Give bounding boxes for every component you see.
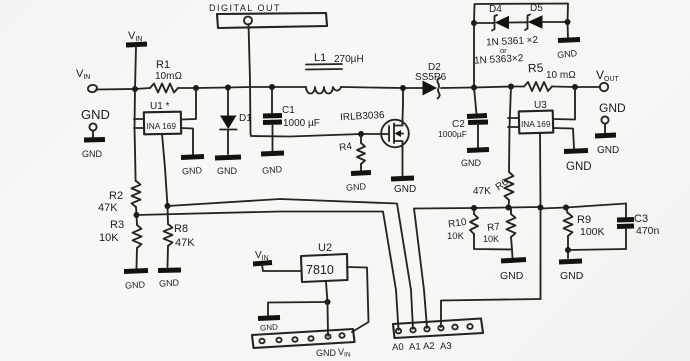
terminal GND right <box>595 101 626 156</box>
zener D4 <box>489 4 527 31</box>
resistor R9 <box>564 208 605 259</box>
wire bus A R8 to A1 <box>168 199 414 329</box>
ground U3 <box>553 128 592 173</box>
resistor R6 <box>473 172 514 207</box>
svg-text:A3: A3 <box>440 341 452 352</box>
svg-text:R10: R10 <box>448 217 468 231</box>
wire U3 left pins column <box>508 87 519 173</box>
ground R4 <box>346 173 371 193</box>
svg-text:GND: GND <box>394 184 416 195</box>
wire main top rail <box>96 87 600 90</box>
wire U3 right pin to rail <box>553 87 575 120</box>
supply VIN U2 <box>253 250 301 271</box>
wire bus C sense divider to A2 <box>414 207 541 209</box>
inductor L1 <box>306 52 364 94</box>
capacitor C2 <box>438 88 488 148</box>
resistor R5 <box>524 60 576 91</box>
connector J1 power <box>252 329 355 359</box>
svg-text:GND: GND <box>81 107 110 122</box>
resistor R1 <box>150 59 182 93</box>
wire source to ground <box>402 147 404 176</box>
ground U2 <box>258 302 328 333</box>
node rail junction right of R1 <box>193 85 199 91</box>
svg-text:270µH: 270µH <box>334 54 364 65</box>
svg-text:A2: A2 <box>423 341 435 352</box>
svg-text:R7: R7 <box>487 221 501 233</box>
wire U3 out to A3 <box>441 299 541 327</box>
wire bus B divider to A0 <box>137 212 399 331</box>
svg-text:47K: 47K <box>175 237 195 249</box>
svg-text:470n: 470n <box>636 225 660 237</box>
terminal GND left <box>81 107 110 159</box>
svg-text:SS5P6: SS5P6 <box>415 72 447 83</box>
ground R7 <box>500 260 526 283</box>
ground Q1 source <box>391 178 416 195</box>
ground clamp <box>557 40 580 61</box>
svg-text:INA 169: INA 169 <box>521 119 551 129</box>
ground C2 <box>461 150 489 169</box>
svg-text:VIN: VIN <box>128 30 142 43</box>
svg-text:A1: A1 <box>409 341 421 352</box>
supply VIN symbol top <box>126 30 147 89</box>
svg-text:10K: 10K <box>483 234 499 244</box>
ground C1 <box>261 153 284 176</box>
svg-text:47K: 47K <box>473 186 491 197</box>
node rail junction drain <box>400 85 406 91</box>
svg-text:R9: R9 <box>577 214 591 226</box>
svg-text:10K: 10K <box>447 231 465 242</box>
svg-text:GND: GND <box>597 145 619 156</box>
terminal VOUT <box>596 68 620 91</box>
svg-text:GND: GND <box>262 164 283 176</box>
ground R8 <box>158 270 181 289</box>
connector J2 analog <box>392 319 483 354</box>
svg-text:GND: GND <box>461 158 482 168</box>
node junction U3 out bus <box>538 205 544 211</box>
wire U2 ground pin <box>326 282 328 302</box>
svg-text:7810: 7810 <box>306 263 334 277</box>
node rail junction clamp/C2 <box>471 85 477 91</box>
node rail junction right of R5 <box>572 84 578 90</box>
node junction clamp left <box>471 20 477 26</box>
svg-text:1000 µF: 1000 µF <box>283 118 320 129</box>
capacitor C3 <box>617 204 660 250</box>
ground R9 <box>559 261 584 282</box>
svg-text:GND: GND <box>346 181 367 192</box>
svg-text:C1: C1 <box>282 105 295 116</box>
svg-text:GND: GND <box>599 101 626 115</box>
node junction R10 top <box>471 205 477 211</box>
wire U2 gnd to connector <box>327 302 330 336</box>
op-amp U3 INA169 <box>519 100 554 133</box>
wire U1 left pins to VIN column <box>134 89 144 181</box>
wire R9 branch <box>541 204 627 209</box>
zener D5 <box>525 3 568 30</box>
svg-text:VIN: VIN <box>76 68 90 81</box>
label zener values <box>474 35 539 67</box>
connector DIGITAL OUT <box>209 3 327 28</box>
capacitor C1 <box>263 87 320 151</box>
svg-text:GND: GND <box>217 166 238 176</box>
svg-text:L1: L1 <box>314 52 326 64</box>
svg-text:GND: GND <box>125 279 146 290</box>
svg-text:GND: GND <box>182 165 203 176</box>
svg-text:INA 169: INA 169 <box>147 121 177 131</box>
resistor R10 <box>447 208 512 250</box>
svg-text:VIN: VIN <box>255 250 269 262</box>
node junction divider <box>134 212 140 218</box>
diode D2 SS5P6 <box>415 62 447 99</box>
svg-text:A0: A0 <box>392 342 404 353</box>
svg-text:GND: GND <box>82 149 103 159</box>
transistor Q1 IRLB3036 <box>340 110 409 147</box>
node rail junction D1 <box>225 85 231 91</box>
svg-text:GND: GND <box>159 277 180 288</box>
svg-text:R5: R5 <box>528 60 545 75</box>
svg-text:GND: GND <box>316 348 337 358</box>
svg-text:IRLB3036: IRLB3036 <box>340 110 385 123</box>
node rail junction C1 <box>269 84 275 90</box>
svg-text:R3: R3 <box>110 219 124 231</box>
node junction R8 bus <box>165 203 171 209</box>
node junction R9 top <box>563 205 569 211</box>
wire U2 output to connector <box>347 267 369 332</box>
node junction clamp right <box>565 19 571 25</box>
terminal VIN input <box>76 68 98 93</box>
svg-text:100K: 100K <box>580 226 605 238</box>
regulator U2 7810 <box>301 242 348 282</box>
node junction U2 gnd <box>325 299 331 305</box>
svg-text:R4: R4 <box>339 141 354 154</box>
node rail junction at VIN drop <box>132 86 138 92</box>
svg-text:VOUT: VOUT <box>596 68 620 83</box>
svg-text:C3: C3 <box>634 213 648 225</box>
svg-text:R1: R1 <box>156 59 170 71</box>
clamp top loop wire <box>474 4 568 88</box>
svg-text:GND: GND <box>260 322 279 332</box>
svg-text:R2: R2 <box>109 190 123 202</box>
wire U1 right pin up to rail <box>181 88 196 120</box>
node rail junction U3 column <box>508 84 514 90</box>
svg-text:DIGITAL OUT: DIGITAL OUT <box>209 3 281 13</box>
ground R3 <box>124 271 148 291</box>
svg-text:U1 *: U1 * <box>150 101 170 112</box>
svg-text:1N 5363×2: 1N 5363×2 <box>474 53 524 67</box>
resistor R2 <box>98 181 141 214</box>
svg-text:D4: D4 <box>489 4 502 15</box>
node junction R6 R7 <box>506 205 512 211</box>
svg-text:1N 5361 ×2: 1N 5361 ×2 <box>486 35 539 49</box>
svg-text:GND: GND <box>557 48 578 60</box>
svg-text:47K: 47K <box>98 202 118 214</box>
svg-text:10 mΩ: 10 mΩ <box>546 70 576 81</box>
wire digital out down to gate bus <box>249 24 362 137</box>
diode D1 <box>220 88 252 155</box>
wire drain to rail <box>402 88 405 120</box>
resistor R8 <box>164 206 196 267</box>
svg-text:VIN: VIN <box>338 347 351 359</box>
resistor R3 <box>99 219 142 268</box>
wire R2 to R3 <box>136 207 137 225</box>
ground U1 <box>181 128 204 177</box>
svg-text:10mΩ: 10mΩ <box>155 71 182 82</box>
svg-text:10K: 10K <box>99 232 119 244</box>
resistor R7 <box>483 208 516 259</box>
svg-text:GND: GND <box>500 270 524 282</box>
svg-text:U2: U2 <box>318 242 332 254</box>
wire diode chain <box>474 22 494 24</box>
node junction R9 bottom <box>565 247 571 253</box>
wire U3 output down <box>539 133 542 299</box>
wire C3 bottom <box>568 249 626 250</box>
svg-text:1000µF: 1000µF <box>438 129 467 139</box>
svg-text:R8: R8 <box>174 223 188 235</box>
op-amp U1 INA169 <box>144 101 181 134</box>
ground D1 <box>215 157 241 176</box>
svg-text:U3: U3 <box>534 100 547 111</box>
resistor R4 <box>339 131 365 171</box>
svg-text:D5: D5 <box>530 3 543 14</box>
svg-text:GND: GND <box>566 161 592 173</box>
wire U1 output down to bus <box>162 134 168 206</box>
svg-text:GND: GND <box>560 270 584 282</box>
